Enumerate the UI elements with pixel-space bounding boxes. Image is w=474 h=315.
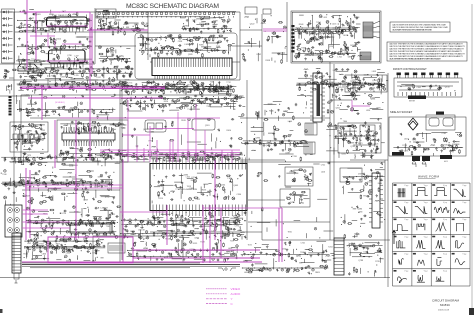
sync components xyxy=(291,169,312,182)
chroma IC U301 xyxy=(62,131,115,142)
shield upper components xyxy=(138,34,233,58)
svg-text:D810: D810 xyxy=(149,89,154,91)
svg-text:Q238: Q238 xyxy=(206,40,211,42)
wire pcb bottom bus xyxy=(22,264,240,266)
svg-text:T378: T378 xyxy=(412,139,416,141)
svg-text:WAVE FORM: WAVE FORM xyxy=(418,174,439,178)
svg-text:VIDEO: VIDEO xyxy=(231,287,241,291)
svg-text:AUDIO: AUDIO xyxy=(231,292,241,296)
svg-text:Q788: Q788 xyxy=(358,260,363,262)
below tuner wires xyxy=(18,67,130,93)
av input area wires xyxy=(8,170,115,206)
mid gap wires xyxy=(100,49,131,62)
svg-text:D670: D670 xyxy=(226,224,231,226)
svg-text:V p-p: V p-p xyxy=(404,202,408,204)
svg-text:T660: T660 xyxy=(301,48,305,50)
legend AUDIO line xyxy=(206,293,227,295)
svg-text:D243: D243 xyxy=(268,104,273,106)
svg-text:2003.01.08: 2003.01.08 xyxy=(438,310,450,312)
svg-text:Q786: Q786 xyxy=(92,252,97,254)
chroma lower wires xyxy=(63,149,127,162)
av input area components xyxy=(1,170,115,205)
front control box xyxy=(394,73,462,103)
svg-text:V p-p: V p-p xyxy=(404,271,408,273)
svg-text:L743: L743 xyxy=(191,177,195,179)
svg-text:R958: R958 xyxy=(266,60,271,62)
svg-text:H.V.: H.V. xyxy=(444,161,448,163)
svg-text:L705: L705 xyxy=(74,75,78,77)
waveform cell W7 sineburst xyxy=(432,201,449,212)
under IF IC wires xyxy=(142,81,231,94)
svg-text:D789: D789 xyxy=(42,231,47,233)
SAW filter row xyxy=(13,134,44,139)
headphone box outline xyxy=(93,236,183,262)
av lower wires xyxy=(30,208,112,241)
svg-text:C550: C550 xyxy=(38,21,43,23)
svg-text:Q521: Q521 xyxy=(111,214,116,216)
page edge line right xyxy=(471,4,473,315)
svg-text:Q314: Q314 xyxy=(372,80,377,82)
side av wires xyxy=(406,132,463,156)
page mark bottom-left xyxy=(0,309,3,313)
svg-text:D488: D488 xyxy=(171,101,176,103)
svg-text:Q763: Q763 xyxy=(350,146,355,148)
FBT box xyxy=(340,168,362,182)
waveform cell W1 burst xyxy=(394,184,409,197)
svg-text:C301: C301 xyxy=(344,52,349,54)
svg-text:V p-p: V p-p xyxy=(443,219,447,221)
svg-text:D927: D927 xyxy=(153,91,158,93)
svg-text:R610: R610 xyxy=(227,130,232,132)
mid power labels xyxy=(255,104,296,159)
bottom far right wires xyxy=(350,243,382,274)
svg-text:R603: R603 xyxy=(180,98,185,100)
mid sparse wires xyxy=(17,95,114,118)
magenta pins at IF IC xyxy=(46,26,88,61)
transformer T472 xyxy=(304,142,315,154)
svg-text:T815: T815 xyxy=(288,232,292,234)
svg-text:V p-p: V p-p xyxy=(404,219,408,221)
mid right power components xyxy=(327,82,360,158)
magenta trace IF to chroma xyxy=(20,85,165,240)
snubber box xyxy=(345,75,387,92)
svg-text:Q952: Q952 xyxy=(105,196,110,198)
tuner box xyxy=(2,9,15,63)
svg-text:Q212: Q212 xyxy=(225,197,230,199)
svg-text:T607: T607 xyxy=(350,81,354,83)
chroma lower labels xyxy=(60,149,124,157)
side av components xyxy=(393,133,462,156)
video det components xyxy=(121,81,236,98)
sound IF box xyxy=(10,122,48,152)
svg-text:R321: R321 xyxy=(370,97,375,99)
waveform cell W8 humps xyxy=(452,201,467,213)
svg-text:C973: C973 xyxy=(198,50,203,52)
svg-text:L915: L915 xyxy=(323,17,327,19)
svg-text:V p-p: V p-p xyxy=(424,219,428,221)
front control inner labels xyxy=(417,87,450,90)
waveform cell W12 square xyxy=(452,219,467,232)
svg-text:Q734: Q734 xyxy=(39,140,44,142)
magenta routing mesh chroma xyxy=(60,100,240,163)
trap box xyxy=(192,119,215,130)
svg-text:D384: D384 xyxy=(213,26,218,28)
waveform cell W3 hpulse xyxy=(432,184,447,195)
svg-text:V p-p: V p-p xyxy=(424,271,428,273)
under chroma components xyxy=(1,153,119,167)
svg-text:D500: D500 xyxy=(56,39,61,41)
wire main buses xyxy=(0,2,390,287)
svg-text:L288: L288 xyxy=(179,222,183,224)
magenta audio loop box xyxy=(22,237,262,263)
waveform cell W17 yr xyxy=(394,253,409,265)
waveform cell W14 peaks xyxy=(413,236,428,249)
svg-text:R573: R573 xyxy=(23,254,28,256)
filter wires xyxy=(98,11,109,18)
power secondary wires xyxy=(296,70,388,98)
video det labels xyxy=(133,82,231,92)
svg-text:R728: R728 xyxy=(165,239,170,241)
svg-text:C755: C755 xyxy=(128,82,133,84)
svg-text:L416: L416 xyxy=(321,172,325,174)
side AV socket box xyxy=(389,112,466,162)
svg-text:V p-p: V p-p xyxy=(404,254,408,256)
svg-text:L703: L703 xyxy=(106,210,110,212)
svg-text:D489: D489 xyxy=(213,20,218,22)
bottom center right labels xyxy=(244,243,333,275)
IF input pad column xyxy=(9,96,12,115)
svg-text:Q428: Q428 xyxy=(143,129,148,131)
svg-text:R267: R267 xyxy=(110,25,115,27)
svg-text:T237: T237 xyxy=(77,158,81,160)
svg-text:C460: C460 xyxy=(66,253,71,255)
svg-text:T220: T220 xyxy=(328,126,332,128)
chroma upper labels xyxy=(91,124,125,130)
svg-text:D679: D679 xyxy=(29,143,34,145)
svg-text:R124: R124 xyxy=(9,162,14,164)
chroma lower components xyxy=(60,147,123,161)
svg-text:R735: R735 xyxy=(402,145,407,147)
svg-text:D417: D417 xyxy=(191,180,196,182)
svg-text:Q270: Q270 xyxy=(37,137,42,139)
svg-text:R545: R545 xyxy=(334,85,339,87)
svg-text:C483: C483 xyxy=(54,247,59,249)
video det wires xyxy=(128,81,235,95)
svg-text:L523: L523 xyxy=(147,222,151,224)
chroma comb ticks xyxy=(64,127,112,146)
fbt area components xyxy=(341,162,386,238)
svg-text:Q808: Q808 xyxy=(35,68,40,70)
tuner lower components xyxy=(16,37,94,67)
svg-text:D416: D416 xyxy=(368,181,373,183)
standby labels xyxy=(350,133,378,148)
svg-text:Q769: Q769 xyxy=(266,145,271,147)
svg-text:T375: T375 xyxy=(337,87,341,89)
ramp components xyxy=(286,191,306,204)
page corner mark bottom-right xyxy=(469,308,474,315)
svg-text:D101: D101 xyxy=(308,41,313,43)
waveform cell W10 comb xyxy=(413,219,428,231)
svg-text:D785: D785 xyxy=(290,202,295,204)
svg-text:D376: D376 xyxy=(358,174,363,176)
svg-text:MC83C SCHEMATIC DIAGRAM: MC83C SCHEMATIC DIAGRAM xyxy=(126,3,219,10)
svg-text:Q669: Q669 xyxy=(233,185,238,187)
legend VIDEO line xyxy=(206,288,227,290)
svg-text:R119: R119 xyxy=(159,198,163,200)
svg-text:D219: D219 xyxy=(310,55,315,57)
svg-text:R342: R342 xyxy=(373,133,378,135)
svg-text:Q583: Q583 xyxy=(36,14,41,16)
svg-text:D614: D614 xyxy=(56,21,61,23)
svg-text:C422: C422 xyxy=(196,199,201,201)
snubber components xyxy=(347,78,385,91)
caution note box 1 xyxy=(390,22,450,32)
svg-text:R917: R917 xyxy=(188,50,193,52)
registration tick xyxy=(15,280,18,283)
av lower components xyxy=(26,206,122,242)
waveform cell W23 wsmall xyxy=(432,270,447,281)
svg-text:D452: D452 xyxy=(364,251,369,253)
svg-text:R253: R253 xyxy=(202,190,207,192)
svg-text:V p-p: V p-p xyxy=(443,185,447,187)
jungle inner labels xyxy=(159,175,242,201)
bottom left components xyxy=(24,238,106,264)
svg-text:T234: T234 xyxy=(328,246,332,248)
abl box xyxy=(360,125,375,145)
svg-text:L237: L237 xyxy=(74,56,78,58)
above jungle components xyxy=(148,152,243,164)
svg-text:T864: T864 xyxy=(343,121,347,123)
svg-text:T819: T819 xyxy=(149,158,153,160)
waveform cell W21 loop xyxy=(394,270,409,283)
svg-text:CIRCUIT DIAGRAM: CIRCUIT DIAGRAM xyxy=(432,299,459,303)
below tuner labels xyxy=(29,66,132,91)
tuner upper wires xyxy=(23,10,92,35)
svg-text:Q690: Q690 xyxy=(119,124,124,126)
mid gap labels xyxy=(109,51,120,61)
chroma box xyxy=(57,120,128,162)
svg-text:L369: L369 xyxy=(372,71,376,73)
right mid components xyxy=(361,95,384,159)
svg-text:D554: D554 xyxy=(164,101,169,103)
svg-text:Q990: Q990 xyxy=(255,138,260,140)
svg-text:D976: D976 xyxy=(69,165,74,167)
mid right power wires xyxy=(326,82,360,158)
svg-text:V p-p: V p-p xyxy=(463,219,467,221)
left edge parts wires xyxy=(7,78,14,94)
tuner lower wires xyxy=(18,37,93,64)
svg-text:D262: D262 xyxy=(257,54,262,56)
jungle inner wires xyxy=(152,173,233,203)
svg-text:Q957: Q957 xyxy=(35,89,40,91)
bottom center right wires xyxy=(246,241,336,270)
svg-text:C864: C864 xyxy=(194,238,199,240)
chroma routing mid wires xyxy=(123,116,243,151)
svg-text:L276: L276 xyxy=(115,66,119,68)
svg-text:T477: T477 xyxy=(347,22,351,24)
svg-text:R607: R607 xyxy=(338,136,343,138)
under IF IC labels xyxy=(160,81,228,92)
svg-text:Q591: Q591 xyxy=(205,125,210,127)
svg-text:D290: D290 xyxy=(350,45,355,47)
svg-text:C846: C846 xyxy=(42,253,47,255)
standby wires xyxy=(344,126,375,149)
sound if wires xyxy=(12,125,45,151)
label WAVE FORM xyxy=(418,174,439,178)
front control inner wires xyxy=(401,84,439,91)
spark gaps xyxy=(412,160,426,167)
svg-text:C741: C741 xyxy=(301,243,306,245)
side av labels xyxy=(402,133,449,152)
audio IC U601 xyxy=(70,222,112,235)
svg-text:Q939: Q939 xyxy=(188,54,193,56)
svg-text:L295: L295 xyxy=(404,150,408,152)
waveform cell W4 saw xyxy=(452,184,467,196)
svg-text:T846: T846 xyxy=(171,84,175,86)
snubber labels xyxy=(358,80,385,86)
svg-text:T149: T149 xyxy=(187,109,191,111)
svg-text:T708: T708 xyxy=(292,156,296,158)
below jungle labels xyxy=(135,215,240,240)
below jungle wires xyxy=(130,214,244,241)
svg-text:C902: C902 xyxy=(417,87,422,89)
mid sparse components xyxy=(16,94,116,120)
mid sparse right labels xyxy=(288,164,326,233)
chroma routing mid labels xyxy=(143,120,231,142)
magenta video trace tuner top xyxy=(20,0,148,160)
svg-text:D125: D125 xyxy=(122,104,127,106)
power supply labels xyxy=(299,17,355,59)
chroma routing upper labels xyxy=(122,96,240,110)
waveform cell W9 step xyxy=(394,219,409,231)
svg-text:V p-p: V p-p xyxy=(424,202,428,204)
mid sparse right components xyxy=(251,161,331,239)
filter box xyxy=(96,9,116,18)
svg-text:Q236: Q236 xyxy=(353,272,358,274)
svg-text:R621: R621 xyxy=(358,143,363,145)
yoke connector tall xyxy=(334,238,344,275)
legend Y line xyxy=(206,298,227,300)
svg-text:V p-p: V p-p xyxy=(424,254,428,256)
svg-text:Q422: Q422 xyxy=(250,23,255,25)
svg-text:Y: Y xyxy=(231,297,233,301)
power supply section box xyxy=(291,11,381,63)
chroma routing lower components xyxy=(121,151,241,163)
shield box outer xyxy=(135,33,237,79)
svg-text:Q586: Q586 xyxy=(357,208,362,210)
mid sparse right wires xyxy=(252,164,333,238)
svg-text:V p-p: V p-p xyxy=(463,185,467,187)
top mid components xyxy=(97,18,149,35)
svg-text:V p-p: V p-p xyxy=(424,185,428,187)
svg-text:Q387: Q387 xyxy=(285,153,290,155)
svg-text:C338: C338 xyxy=(178,41,183,43)
ac input wires xyxy=(244,18,287,63)
svg-text:D830: D830 xyxy=(315,40,320,42)
svg-text:R616: R616 xyxy=(236,96,241,98)
av input area labels xyxy=(2,174,109,202)
under IF IC components xyxy=(141,81,233,96)
svg-text:R828: R828 xyxy=(145,44,150,46)
chroma routing upper components xyxy=(120,94,242,113)
main edge connector P901 xyxy=(12,233,21,279)
right mid labels xyxy=(366,97,381,112)
svg-text:T568: T568 xyxy=(200,242,204,244)
svg-text:C241: C241 xyxy=(91,128,96,130)
svg-text:CAUTION: THE PARTS IN THE SCHE: CAUTION: THE PARTS IN THE SCHEMATIC DIAG… xyxy=(389,58,442,61)
svg-text:V p-p: V p-p xyxy=(463,254,467,256)
svg-text:D599: D599 xyxy=(125,80,130,82)
svg-text:L624: L624 xyxy=(138,230,142,232)
svg-text:L750: L750 xyxy=(50,75,54,77)
svg-text:C444: C444 xyxy=(90,160,95,162)
svg-text:V p-p: V p-p xyxy=(404,185,408,187)
top mid wires xyxy=(101,18,149,32)
svg-text:C828: C828 xyxy=(109,59,114,61)
svg-text:L581: L581 xyxy=(33,71,37,73)
svg-text:V p-p: V p-p xyxy=(443,202,447,204)
waveform cell W11 spikes xyxy=(432,219,447,232)
mid power wires xyxy=(249,101,313,160)
svg-text:D899: D899 xyxy=(348,57,353,59)
svg-text:Q191: Q191 xyxy=(59,107,64,109)
focus arrow xyxy=(392,230,395,244)
above jungle wires xyxy=(155,153,232,162)
svg-text:C396: C396 xyxy=(237,194,242,196)
svg-text:C633: C633 xyxy=(70,74,75,76)
svg-text:T858: T858 xyxy=(77,149,81,151)
svg-text:SIDE A/V SOCKET: SIDE A/V SOCKET xyxy=(390,110,413,114)
svg-text:D272: D272 xyxy=(199,23,204,25)
svg-text:KEY/IR: KEY/IR xyxy=(409,101,416,103)
av lower labels xyxy=(28,207,115,237)
chopper transformer T801 hatched xyxy=(363,21,380,38)
ramp box xyxy=(280,189,310,207)
svg-text:D526: D526 xyxy=(100,84,105,86)
svg-text:C714: C714 xyxy=(181,90,186,92)
svg-text:V p-p: V p-p xyxy=(424,236,428,238)
svg-text:Q388: Q388 xyxy=(364,248,369,250)
ac input labels xyxy=(250,23,281,62)
jungle inner components xyxy=(154,174,243,202)
waveform cell W15 peaks xyxy=(432,236,447,249)
svg-text:Q964: Q964 xyxy=(79,20,84,22)
svg-text:Q824: Q824 xyxy=(189,44,194,46)
posistor box xyxy=(263,9,271,14)
sync labels xyxy=(289,171,308,181)
svg-text:R759: R759 xyxy=(149,141,154,143)
svg-text:T605: T605 xyxy=(376,108,380,110)
svg-text:T185: T185 xyxy=(300,252,304,254)
svg-text:Q564: Q564 xyxy=(221,185,226,187)
tuner upper components xyxy=(16,9,92,33)
regulator IC U801 tall xyxy=(310,73,325,122)
svg-text:T195: T195 xyxy=(41,130,45,132)
svg-text:T979: T979 xyxy=(27,155,31,157)
waveform cell W18 mshape xyxy=(413,253,428,266)
svg-text:V p-p: V p-p xyxy=(443,254,447,256)
svg-text:C841: C841 xyxy=(341,153,346,155)
svg-text:T157: T157 xyxy=(230,241,234,243)
waveform cell W20 sine xyxy=(452,253,467,265)
chroma routing lower wires xyxy=(121,151,231,163)
svg-text:L936: L936 xyxy=(366,110,370,112)
svg-text:R803: R803 xyxy=(315,272,320,274)
svg-text:V p-p: V p-p xyxy=(463,236,467,238)
ac input components xyxy=(242,15,287,64)
shield upper wires xyxy=(139,35,234,57)
svg-text:R694: R694 xyxy=(194,51,199,53)
